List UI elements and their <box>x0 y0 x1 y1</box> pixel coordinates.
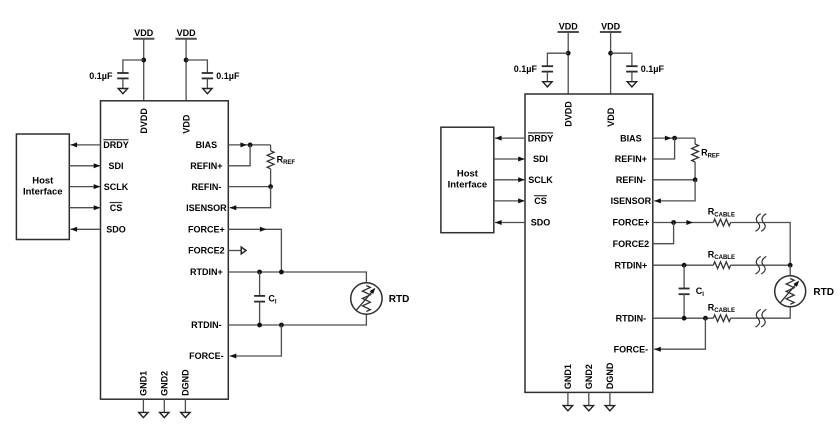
wire FORCE- (1) <box>230 325 282 356</box>
wire RREF bottom lead (2) <box>694 162 696 180</box>
wire C1 to ground (2) <box>546 72 548 83</box>
svg-text:VDD: VDD <box>559 21 579 31</box>
VDD supply rail bar 2 (2) <box>600 31 621 33</box>
cable break marks 2 (2) <box>756 256 761 274</box>
svg-text:RTDIN+: RTDIN+ <box>190 267 223 277</box>
wire junction to C2 (1) <box>186 60 207 73</box>
wire RREF bottom to ISENSOR (2) <box>654 180 695 201</box>
wire DGND to ground (2) <box>609 392 611 405</box>
junction RTD top node (2) <box>788 263 793 268</box>
svg-text:Host: Host <box>32 176 54 187</box>
svg-text:GND1: GND1 <box>139 371 149 396</box>
svg-text:0.1µF: 0.1µF <box>514 64 538 74</box>
wire REFIN+ up to BIAS (1) <box>228 145 250 166</box>
arrowhead SDO into host (2) <box>495 220 502 225</box>
arrowhead CS into IC (1) <box>94 205 101 210</box>
host interface box (2) <box>441 127 494 233</box>
RTD internal zigzag (1) <box>362 286 370 312</box>
ground arrow GND1 (1) <box>139 412 148 417</box>
svg-text:BIAS: BIAS <box>620 133 642 143</box>
svg-text:VDD: VDD <box>177 28 197 38</box>
wire RTDIN- to cable (2) <box>653 317 714 319</box>
ground arrow C2 (2) <box>627 82 636 87</box>
wire RREF top lead (2) <box>694 138 696 144</box>
op-amp/ADC IC U1 outline <box>101 101 229 399</box>
RTD sensor circle (1) <box>351 283 382 314</box>
wire RTD top node to RTD (2) <box>789 265 791 276</box>
junction RTDIN-/CI (2) <box>682 316 687 321</box>
arrowhead on BIAS wire (1) <box>240 142 247 147</box>
VDD supply rail bar 1 (1) <box>133 38 154 40</box>
wire CI bottom lead (2) <box>683 294 685 318</box>
capacitor C1 0.1uF (1) <box>117 72 128 74</box>
junction VDD2/C2 (1) <box>184 58 189 63</box>
ground arrow C1 (2) <box>543 82 552 87</box>
wire host to CS (1) <box>69 207 100 209</box>
junction BIAS/REFIN+ (1) <box>248 143 253 148</box>
overline CS (1) <box>110 202 123 204</box>
wire BIAS to RREF top (1) <box>228 144 270 146</box>
ground arrow GND2 (2) <box>584 406 593 411</box>
junction BIAS/REFIN+ (2) <box>672 136 677 141</box>
wire RREF top lead (1) <box>270 145 272 151</box>
svg-text:RTDIN-: RTDIN- <box>616 313 647 323</box>
svg-text:RTD: RTD <box>813 287 834 298</box>
svg-text:FORCE+: FORCE+ <box>188 225 225 235</box>
arrowhead SDO into host (1) <box>71 227 78 232</box>
wire RTDIN- to RTD (1) <box>228 314 366 325</box>
wire GND2 to ground (1) <box>163 399 165 412</box>
overline DRDY (2) <box>528 132 553 134</box>
svg-text:DGND: DGND <box>605 362 615 389</box>
svg-text:SCLK: SCLK <box>528 175 553 185</box>
svg-text:BIAS: BIAS <box>196 140 218 150</box>
arrowhead into ISENSOR pin (1) <box>230 205 237 210</box>
arrowhead CS into IC (2) <box>518 198 525 203</box>
wire VDD rail 2 to VDD pin (2) <box>610 32 612 94</box>
wire RTDIN+ to RTD (1) <box>228 272 366 283</box>
resistor RCABLE2 (2) <box>713 262 730 269</box>
wire SDO to host (2) <box>495 222 525 224</box>
resistor RCABLE3 (2) <box>713 315 730 322</box>
host interface box (1) <box>16 134 69 240</box>
RTD internal zigzag (2) <box>786 279 794 305</box>
wire GND1 to ground (1) <box>142 399 144 412</box>
svg-text:FORCE+: FORCE+ <box>613 218 650 228</box>
wire host to SCLK (1) <box>69 186 100 188</box>
svg-text:RTD: RTD <box>389 294 410 305</box>
ground arrow GND2 (1) <box>160 412 169 417</box>
wire FORCE+ (1) <box>228 229 281 272</box>
svg-text:VDD: VDD <box>601 21 621 31</box>
wire C2 to ground (2) <box>631 72 633 83</box>
wire junction to C2 (2) <box>611 53 632 66</box>
wire host to CS (2) <box>494 200 525 202</box>
wire DRDY to host (1) <box>71 144 101 146</box>
junction RTDIN-/FORCE- (2) <box>703 316 708 321</box>
svg-text:Interface: Interface <box>448 180 488 191</box>
svg-text:0.1µF: 0.1µF <box>216 71 240 81</box>
svg-text:FORCE-: FORCE- <box>189 351 224 361</box>
svg-text:ISENSOR: ISENSOR <box>611 196 652 206</box>
junction RTDIN+/CI (1) <box>257 270 262 275</box>
open arrow FORCE2 (1) <box>241 247 246 254</box>
wire junction to C1 (2) <box>547 53 568 66</box>
wire C1 to ground (1) <box>122 78 124 89</box>
wire CI bottom lead (1) <box>259 302 261 325</box>
wire CI top lead (2) <box>683 265 685 288</box>
svg-text:ISENSOR: ISENSOR <box>186 203 227 213</box>
capacitor C2 0.1uF (2) <box>626 65 637 67</box>
resistor RCABLE1 (2) <box>713 219 730 226</box>
wire REFIN+ up to BIAS (2) <box>653 138 675 159</box>
wire GND1 to ground (2) <box>567 392 569 405</box>
VDD supply rail bar 2 (1) <box>175 38 196 40</box>
svg-text:Interface: Interface <box>23 187 63 198</box>
junction VDD1/C1 (1) <box>141 58 146 63</box>
wire REFIN- (2) <box>653 179 695 181</box>
svg-text:SCLK: SCLK <box>104 182 129 192</box>
junction RTDIN-/CI (1) <box>257 323 262 328</box>
RTD variable arrow (1) <box>356 289 374 310</box>
arrowhead on FORCE+ wire (1) <box>260 227 267 232</box>
wire VDD rail 1 to DVDD pin (2) <box>567 32 569 94</box>
junction VDD2/C2 (2) <box>608 51 613 56</box>
ground arrow C2 (1) <box>203 89 212 94</box>
arrowhead into FORCE- pin (2) <box>654 347 661 352</box>
wire VDD rail 1 to DVDD pin (1) <box>143 39 145 101</box>
wire DRDY to host (2) <box>495 137 525 139</box>
resistor RREF (1) <box>267 151 274 169</box>
arrowhead on FORCE+ wire (2) <box>686 220 693 225</box>
ground arrow DGND (2) <box>605 406 614 411</box>
svg-text:VDD: VDD <box>181 114 191 134</box>
wire FORCE2 to FORCE+ (2) <box>653 223 674 244</box>
svg-text:DVDD: DVDD <box>564 101 574 127</box>
cable break marks 3 (2) <box>756 309 761 327</box>
wire cable3 to RTD bottom (2) <box>730 306 790 318</box>
wire RTDIN+ to cable (2) <box>653 264 714 266</box>
wire cable1 to corner (2) <box>730 223 790 266</box>
arrowhead SDI into IC (2) <box>518 157 525 162</box>
svg-text:0.1µF: 0.1µF <box>89 71 113 81</box>
junction RTDIN+/FORCE+ (1) <box>279 270 284 275</box>
capacitor C1 0.1uF (2) <box>542 65 553 67</box>
svg-text:FORCE-: FORCE- <box>614 344 649 354</box>
svg-text:RTDIN-: RTDIN- <box>191 320 222 330</box>
overline DRDY (1) <box>103 139 128 141</box>
resistor RREF (2) <box>692 144 699 162</box>
stub FORCE2 no-connect (1) <box>228 250 241 252</box>
arrowhead DRDY into host (1) <box>71 142 78 147</box>
svg-text:FORCE2: FORCE2 <box>613 239 650 249</box>
arrowhead into ISENSOR pin (2) <box>654 198 661 203</box>
svg-text:GND1: GND1 <box>563 364 573 389</box>
svg-text:REFIN+: REFIN+ <box>190 161 222 171</box>
svg-text:GND2: GND2 <box>160 371 170 396</box>
junction RTDIN+/CI (2) <box>682 263 687 268</box>
junction VDD1/C1 (2) <box>566 51 571 56</box>
svg-text:DRDY: DRDY <box>103 140 129 150</box>
cable break marks 1 (2) <box>756 214 761 232</box>
RTD variable arrow (2) <box>780 282 798 303</box>
svg-text:SDI: SDI <box>108 161 123 171</box>
svg-text:CS: CS <box>534 196 547 206</box>
svg-text:SDO: SDO <box>531 218 551 228</box>
svg-text:VDD: VDD <box>606 107 616 127</box>
svg-text:REFIN+: REFIN+ <box>615 154 647 164</box>
wire C2 to ground (1) <box>206 78 208 89</box>
svg-text:Host: Host <box>457 169 479 180</box>
junction FORCE+/FORCE2 (2) <box>671 220 676 225</box>
op-amp/ADC IC U2 outline <box>525 94 653 392</box>
arrowhead SCLK into IC (1) <box>94 184 101 189</box>
ground arrow DGND (1) <box>181 412 190 417</box>
wire RREF bottom to ISENSOR (1) <box>230 187 271 208</box>
svg-text:RTDIN+: RTDIN+ <box>615 260 648 270</box>
wire REFIN- (1) <box>228 186 270 188</box>
wire host to SDI (2) <box>494 158 525 160</box>
wire CI top lead (1) <box>259 272 261 296</box>
wire cable2 to RTD top (2) <box>730 264 790 266</box>
arrowhead DRDY into host (2) <box>495 136 502 141</box>
overline CS (2) <box>534 195 547 197</box>
wire GND2 to ground (2) <box>588 392 590 405</box>
svg-text:DVDD: DVDD <box>139 108 149 134</box>
svg-text:DGND: DGND <box>181 369 191 396</box>
capacitor CI (2) <box>679 288 690 290</box>
junction REFIN-/ISENSOR (2) <box>693 177 698 182</box>
ground arrow C1 (1) <box>118 89 127 94</box>
VDD supply rail bar 1 (2) <box>558 31 579 33</box>
wire junction to C1 (1) <box>123 60 144 73</box>
svg-text:FORCE2: FORCE2 <box>188 246 225 256</box>
svg-text:CS: CS <box>110 203 123 213</box>
svg-text:DRDY: DRDY <box>528 133 554 143</box>
capacitor CI (1) <box>254 295 265 297</box>
svg-text:REFIN-: REFIN- <box>616 175 646 185</box>
arrowhead into FORCE- pin (1) <box>230 354 237 359</box>
arrowhead SDI into IC (1) <box>94 163 101 168</box>
wire BIAS to RREF top (2) <box>653 137 695 139</box>
wire FORCE- (2) <box>654 318 705 349</box>
junction RTDIN-/FORCE- (1) <box>279 323 284 328</box>
arrowhead on BIAS wire (2) <box>665 136 672 141</box>
svg-text:0.1µF: 0.1µF <box>641 64 665 74</box>
svg-text:GND2: GND2 <box>584 364 594 389</box>
ground arrow GND1 (2) <box>563 406 572 411</box>
wire host to SCLK (2) <box>494 179 525 181</box>
svg-text:SDO: SDO <box>106 225 126 235</box>
capacitor C2 0.1uF (1) <box>202 72 213 74</box>
svg-text:VDD: VDD <box>134 28 154 38</box>
RTD sensor circle (2) <box>775 276 806 307</box>
wire DGND to ground (1) <box>184 399 186 412</box>
junction REFIN-/ISENSOR (1) <box>268 184 273 189</box>
wire FORCE+ to cable (2) <box>653 222 714 224</box>
wire VDD rail 2 to VDD pin (1) <box>185 39 187 101</box>
svg-text:REFIN-: REFIN- <box>191 182 221 192</box>
wire RREF bottom lead (1) <box>270 169 272 187</box>
svg-text:SDI: SDI <box>533 154 548 164</box>
arrowhead SCLK into IC (2) <box>518 177 525 182</box>
wire host to SDI (1) <box>69 165 100 167</box>
wire SDO to host (1) <box>71 228 101 230</box>
